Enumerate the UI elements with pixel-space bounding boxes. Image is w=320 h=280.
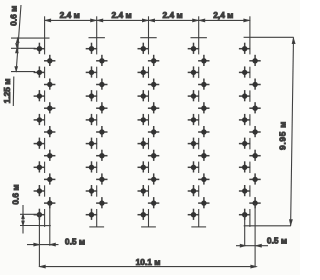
extension line at top T level bbox=[11, 37, 50, 39]
row pair 1 center line segments bbox=[44, 67, 46, 227]
row pair 4 right plant row bbox=[198, 55, 209, 209]
row pair 4 top tick bbox=[198, 16, 200, 54]
pair 1 left row extension line to bottom dims bbox=[38, 215, 40, 267]
bottom-left dim line 0.6 m bbox=[22, 205, 24, 234]
left dim line (0.6 m / 1.25 m) bbox=[13, 5, 21, 106]
row pair 2 top tick bbox=[96, 16, 98, 54]
row pair 3 top tick bbox=[148, 16, 150, 54]
svg-text:2.4 м: 2.4 м bbox=[112, 10, 132, 20]
dim line 0.5 m (left) bbox=[27, 243, 59, 246]
pair 5 right row extension line to bottom dim bbox=[254, 203, 256, 267]
right extension line top bbox=[244, 36, 294, 38]
svg-text:1.25 м: 1.25 м bbox=[2, 79, 12, 104]
dim line 10.1 m bbox=[39, 265, 256, 268]
extension line first plant row bbox=[11, 47, 36, 49]
row pair 4 top T-bar bbox=[191, 37, 207, 39]
row pair 4 bottom T-bar bbox=[191, 226, 206, 228]
extension line last plant row bbox=[20, 213, 41, 215]
row pair 5 left plant row bbox=[239, 43, 250, 220]
row pair 5 top tick bbox=[249, 16, 251, 54]
row pair 1 right plant row bbox=[44, 55, 55, 209]
pair 5 bottom bar and extension to right dim bbox=[244, 225, 291, 227]
dim line 0.5 m (right) bbox=[236, 244, 268, 247]
row pair 2 top T-bar bbox=[89, 37, 105, 39]
row pair 1 top tick bbox=[44, 16, 46, 54]
row pair 3 left plant row bbox=[138, 43, 149, 220]
row pair 4 left plant row bbox=[188, 43, 199, 220]
top dimension line 2.4 m chain bbox=[45, 19, 250, 22]
svg-text:9.95 м: 9.95 м bbox=[278, 121, 288, 150]
svg-text:0.6 м: 0.6 м bbox=[8, 6, 18, 26]
row pair 3 top T-bar bbox=[140, 37, 156, 39]
row pair 4 center line segments bbox=[198, 67, 200, 227]
row pair 2 left plant row bbox=[86, 43, 97, 220]
row pair 5 right plant row bbox=[249, 55, 260, 209]
row pair 3 bottom T-bar bbox=[141, 226, 156, 228]
row pair 5 center line segments bbox=[249, 67, 251, 227]
svg-text:0.6 м: 0.6 м bbox=[11, 184, 21, 204]
row pair 3 center line segments bbox=[148, 67, 150, 227]
row pair 1 left plant row bbox=[34, 43, 45, 220]
row pair 2 right plant row bbox=[96, 55, 107, 209]
extension line second plant row bbox=[11, 71, 35, 73]
pair 1 right row extension line bbox=[49, 203, 51, 246]
row pair 2 bottom T-bar bbox=[89, 226, 104, 228]
svg-text:0.5 м: 0.5 м bbox=[65, 237, 85, 247]
extension line bottom bar level bbox=[20, 225, 39, 227]
right dim line 9.95 m bbox=[290, 37, 295, 226]
svg-text:2.4 м: 2.4 м bbox=[60, 10, 80, 20]
row pair 3 right plant row bbox=[148, 55, 159, 209]
pair 1 bottom bar bbox=[38, 225, 50, 227]
svg-text:2,4 м: 2,4 м bbox=[213, 10, 233, 20]
row pair 2 center line segments bbox=[96, 67, 98, 227]
svg-text:0.5 м: 0.5 м bbox=[267, 235, 287, 245]
svg-text:10.1 м: 10.1 м bbox=[136, 257, 161, 267]
svg-text:2.4 м: 2.4 м bbox=[163, 10, 183, 20]
pair 5 left row extension line bbox=[244, 215, 246, 246]
